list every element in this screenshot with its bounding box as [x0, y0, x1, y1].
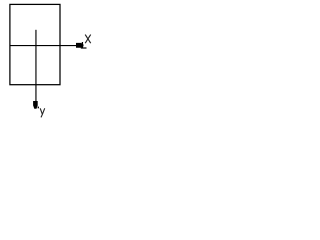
x axis end tick	[81, 42, 83, 48]
y axis arrowhead	[33, 101, 38, 109]
rectangle part outline	[10, 4, 60, 84]
y axis end tick	[37, 107, 39, 109]
x axis tip overshoot bar	[81, 47, 87, 49]
y axis wire	[35, 30, 37, 102]
label X	[85, 35, 91, 44]
x axis arrowhead	[76, 43, 84, 48]
label y	[40, 108, 45, 117]
x axis wire	[10, 45, 81, 47]
